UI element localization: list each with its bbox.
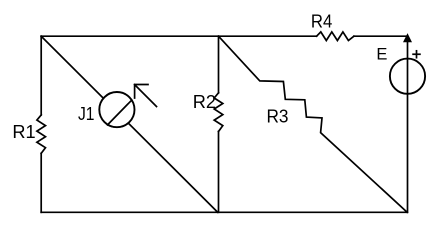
svg-text:R1: R1 xyxy=(12,122,35,142)
wire top (left of R4) xyxy=(41,35,316,37)
resistor R3 (staircase zigzag on diagonal) xyxy=(219,36,408,212)
current source J1 xyxy=(99,92,134,127)
wire middle vertical (upper) xyxy=(218,36,220,93)
svg-text:E: E xyxy=(376,46,387,64)
wire top (right of R4) xyxy=(354,35,408,37)
svg-text:J1: J1 xyxy=(78,104,95,124)
wire left (upper) xyxy=(40,36,42,115)
E arrowhead xyxy=(404,34,411,42)
wire bottom xyxy=(41,211,407,213)
svg-text:R4: R4 xyxy=(311,12,332,32)
resistor R2 xyxy=(214,93,223,132)
resistor R4 xyxy=(317,32,354,41)
svg-text:R3: R3 xyxy=(267,107,289,127)
svg-text:R2: R2 xyxy=(193,92,216,112)
wire diagonal J1 branch xyxy=(41,36,218,212)
J1 direction arrow xyxy=(135,85,157,107)
voltage source E xyxy=(390,59,425,94)
wire middle vertical (lower) xyxy=(218,132,220,213)
resistor R1 xyxy=(37,115,46,153)
plus sign of E xyxy=(413,51,420,58)
wire right xyxy=(407,36,409,212)
wire left (lower) xyxy=(40,153,42,212)
